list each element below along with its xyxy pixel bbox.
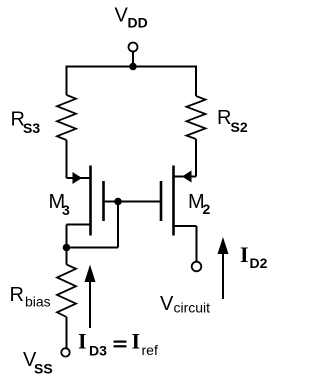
wire node to Rbias xyxy=(66,248,68,265)
terminal circle Vcircuit xyxy=(192,262,202,272)
svg-text:S3: S3 xyxy=(23,120,40,136)
wire top rail xyxy=(67,66,197,68)
resistor Rbias xyxy=(57,265,76,318)
svg-text:V: V xyxy=(115,5,129,27)
terminal circle VSS xyxy=(61,348,69,356)
wire bottom node horizontal xyxy=(67,247,119,249)
wire gate-to-gate xyxy=(104,201,162,203)
svg-text:ref: ref xyxy=(142,342,158,358)
svg-text:D3: D3 xyxy=(89,343,107,359)
wire M2 source horizontal xyxy=(174,225,197,227)
wire M3 source down xyxy=(66,225,68,248)
svg-text:I: I xyxy=(240,242,249,267)
wire M3 drain horizontal xyxy=(67,177,91,179)
arrowhead ID3 xyxy=(85,265,96,283)
transistor M2 channel bar xyxy=(172,166,175,236)
arrowhead ID2 xyxy=(218,237,229,254)
junction dot at VDD rail xyxy=(129,63,137,71)
transistor M3 channel bar xyxy=(89,166,92,236)
svg-text:3: 3 xyxy=(62,202,70,218)
arrow ID2 line xyxy=(222,252,224,299)
wire M3 source horizontal xyxy=(67,224,91,226)
wire left branch upper xyxy=(66,66,68,96)
arrowhead M2 drain xyxy=(182,171,192,183)
wire right branch upper xyxy=(195,66,197,97)
svg-text:D2: D2 xyxy=(250,255,268,271)
wire gate junction drop xyxy=(117,202,119,248)
junction dot at gate net xyxy=(114,198,122,206)
svg-text:S2: S2 xyxy=(231,119,248,135)
svg-text:R: R xyxy=(10,284,24,306)
svg-text:2: 2 xyxy=(203,201,211,217)
svg-text:I: I xyxy=(132,329,141,354)
svg-text:V: V xyxy=(160,293,174,315)
junction dot at M3 source node xyxy=(63,244,71,252)
node VDD terminal stub wire xyxy=(132,52,134,67)
wire Rbias to VSS xyxy=(66,317,68,348)
svg-text:I: I xyxy=(78,329,87,354)
resistor RS3 xyxy=(57,95,76,140)
arrowhead M3 drain xyxy=(73,172,83,184)
wire M2 source down xyxy=(196,226,198,262)
transistor M2 gate bar xyxy=(160,181,163,221)
wire RS3 to M3 drain xyxy=(66,140,68,178)
wire M2 drain horizontal xyxy=(174,176,197,178)
resistor RS2 xyxy=(187,96,206,139)
svg-text:bias: bias xyxy=(25,294,51,310)
svg-text:R: R xyxy=(217,107,231,129)
wire RS2 to M2 drain xyxy=(195,139,197,177)
terminal circle VDD xyxy=(129,43,138,52)
transistor M3 gate bar xyxy=(102,181,105,221)
svg-text:circuit: circuit xyxy=(174,300,211,316)
arrow ID3 line xyxy=(89,280,91,328)
svg-text:DD: DD xyxy=(128,15,148,31)
svg-text:SS: SS xyxy=(34,361,53,377)
